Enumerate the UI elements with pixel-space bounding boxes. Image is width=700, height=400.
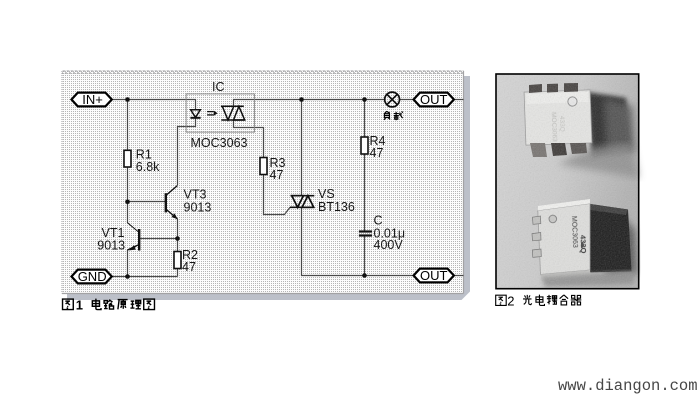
- phototriac inside IC: [221, 106, 245, 120]
- photo: bottom chip pins left: [532, 216, 541, 257]
- svg-text:9013: 9013: [184, 201, 212, 215]
- svg-text:47: 47: [182, 260, 196, 274]
- terminal flag OUT bottom: [414, 268, 454, 283]
- schematic panel background: [62, 71, 464, 294]
- photo: top chip pins lower row: [530, 143, 587, 157]
- caption figure 2: optocoupler photo: [496, 293, 582, 308]
- node: junction top rail R4: [362, 97, 367, 102]
- photo: shadow under bottom chip: [542, 271, 634, 287]
- caption figure 1: circuit schematic: [63, 298, 155, 313]
- capacitor C: [359, 232, 372, 236]
- photo: top chip pin 1 marker dot: [568, 97, 578, 107]
- svg-text:www.diangon.com: www.diangon.com: [558, 377, 698, 395]
- optical coupling arrow: [207, 111, 218, 116]
- label load (fu zai) under lamp: [384, 111, 403, 120]
- photo: bottom optocoupler white package: [538, 199, 591, 282]
- photo border frame: [496, 74, 639, 289]
- svg-text:47: 47: [370, 146, 384, 160]
- svg-text:1: 1: [76, 298, 83, 313]
- wire: IC pin2 to VT3 collector: [178, 118, 196, 185]
- svg-text:IN+: IN+: [82, 92, 103, 107]
- photo: top chip pins upper row: [529, 83, 578, 93]
- wire: R3 to VS gate: [264, 175, 291, 215]
- wire: VT3 emitter to node B: [177, 219, 179, 239]
- svg-text:400V: 400V: [374, 238, 404, 252]
- LED D1 inside IC: [190, 110, 200, 118]
- photo: fairchild logo mark: [581, 243, 584, 248]
- label R1 6.8k: [136, 148, 160, 175]
- svg-text:IC: IC: [212, 80, 225, 94]
- triac VS BT136: [290, 196, 314, 208]
- svg-text:BT136: BT136: [318, 200, 355, 214]
- node: bottom rail C junction: [362, 273, 367, 278]
- label R3 47: [270, 156, 286, 182]
- svg-text:VT3: VT3: [184, 188, 207, 202]
- wire: R4 C branch: [364, 100, 366, 276]
- panel right edge line: [463, 71, 465, 294]
- lamp load: [385, 92, 400, 107]
- label IC: [212, 80, 225, 94]
- svg-text:GND: GND: [78, 269, 107, 284]
- node: junction top rail R1: [125, 97, 130, 102]
- IC U1 outline box: [186, 94, 254, 132]
- label VS BT136: [318, 187, 355, 214]
- resistor R2: [174, 252, 181, 269]
- panel top sawtooth edge: [62, 70, 464, 74]
- resistor R1: [124, 150, 131, 167]
- svg-text:6.8k: 6.8k: [136, 160, 160, 174]
- photo: bottom optocoupler black body: [587, 204, 637, 278]
- resistor R3: [260, 158, 267, 175]
- terminal flag IN+: [72, 92, 112, 107]
- label VT3 9013: [184, 188, 212, 215]
- photo figure 2 background: [496, 74, 639, 289]
- svg-text:47: 47: [270, 168, 284, 182]
- svg-text:OUT: OUT: [420, 268, 448, 283]
- wire: VS to bottom rail and OUT: [302, 207, 464, 275]
- node: junction top rail VS: [299, 97, 304, 102]
- label MOC3063: [191, 136, 248, 150]
- wire: VT3 base link: [128, 201, 166, 203]
- wire: R1 branch vertical: [127, 100, 129, 224]
- svg-text:OUT: OUT: [420, 92, 448, 107]
- panel left dotted edge: [61, 71, 63, 294]
- photo: bottom chip pin 1 dimple: [549, 215, 557, 223]
- terminal flag GND: [72, 269, 112, 284]
- wire: VT1 emitter to ground rail: [127, 250, 129, 277]
- transistor VT1: [128, 223, 140, 251]
- label R4 47: [370, 134, 386, 160]
- wire: top rail from IC triac to lamp and OUT: [234, 100, 464, 107]
- transistor VT3: [166, 186, 178, 220]
- svg-text:VS: VS: [318, 187, 335, 201]
- label VT1 9013: [97, 226, 125, 253]
- label C 0.01u 400V: [374, 214, 406, 253]
- watermark www.diangon.com: [558, 377, 698, 395]
- svg-text:9013: 9013: [97, 238, 125, 252]
- label R2 47: [182, 248, 198, 274]
- photo grain overlay: [496, 74, 639, 289]
- wire: ground rail GND to R2: [112, 276, 178, 278]
- terminal flag OUT top: [414, 92, 454, 107]
- node: ground rail junction: [125, 274, 130, 279]
- photo: top optocoupler chip body: [524, 90, 592, 145]
- schematic panel drop shadow: [67, 76, 470, 300]
- wire: IC pin4 to R3: [234, 120, 264, 158]
- photo: top optocoupler chip shadow: [558, 92, 639, 178]
- panel bottom edge line: [62, 293, 464, 295]
- wire: top rail from IN+ to IC LED anode: [112, 100, 196, 110]
- resistor R4: [361, 137, 368, 154]
- wire: VT1 base link: [140, 238, 178, 240]
- svg-text:MOC3063: MOC3063: [191, 136, 248, 150]
- node: VT3 base junction: [125, 200, 130, 205]
- wire: VS branch from top rail: [301, 100, 303, 196]
- node: VT1 base junction: [175, 236, 180, 241]
- wire: R2 leads: [177, 239, 179, 277]
- svg-text:2: 2: [507, 293, 514, 308]
